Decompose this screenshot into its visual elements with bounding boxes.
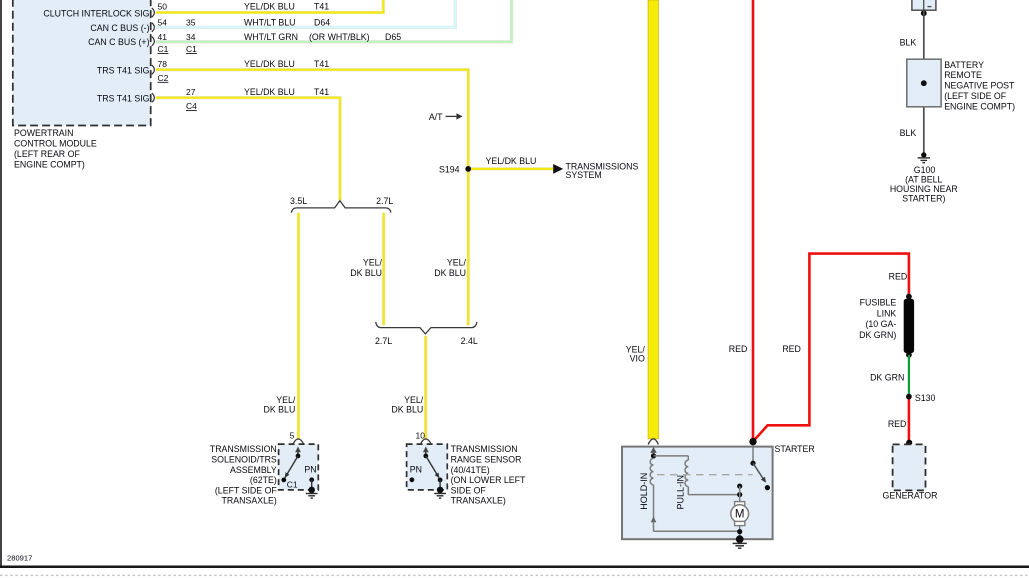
svg-text:HOUSING NEAR: HOUSING NEAR xyxy=(890,184,958,194)
svg-text:2.7L: 2.7L xyxy=(375,336,392,346)
svg-text:(OR WHT/BLK): (OR WHT/BLK) xyxy=(309,32,370,42)
svg-text:TRANSMISSION: TRANSMISSION xyxy=(451,444,518,454)
svg-text:WHT/LT BLU: WHT/LT BLU xyxy=(244,17,295,27)
svg-text:(ON LOWER LEFT: (ON LOWER LEFT xyxy=(451,475,526,485)
svg-text:DK BLU: DK BLU xyxy=(391,405,423,415)
svg-text:S130: S130 xyxy=(915,393,936,403)
svg-text:(62TE): (62TE) xyxy=(250,475,277,485)
svg-text:78: 78 xyxy=(158,59,168,69)
svg-text:A/T: A/T xyxy=(429,112,443,122)
svg-text:SYSTEM: SYSTEM xyxy=(566,170,602,180)
svg-text:M: M xyxy=(735,509,745,521)
svg-text:RED: RED xyxy=(889,271,908,281)
svg-text:VIO: VIO xyxy=(630,354,645,364)
svg-text:PN: PN xyxy=(304,464,316,474)
svg-text:CAN C BUS (-): CAN C BUS (-) xyxy=(90,23,149,33)
svg-text:DK BLU: DK BLU xyxy=(434,268,466,278)
svg-text:RANGE SENSOR: RANGE SENSOR xyxy=(451,455,522,465)
svg-text:41: 41 xyxy=(158,32,168,42)
svg-text:T41: T41 xyxy=(314,87,329,97)
svg-text:TRS T41 SIG: TRS T41 SIG xyxy=(97,94,150,104)
svg-text:(AT BELL: (AT BELL xyxy=(905,174,942,184)
svg-text:280917: 280917 xyxy=(7,554,32,563)
svg-text:S194: S194 xyxy=(439,165,460,175)
svg-text:RED: RED xyxy=(782,344,801,354)
svg-text:ENGINE COMPT): ENGINE COMPT) xyxy=(944,101,1015,111)
svg-text:ASSEMBLY: ASSEMBLY xyxy=(230,465,277,475)
svg-text:LINK: LINK xyxy=(877,308,897,318)
svg-text:2.4L: 2.4L xyxy=(461,336,478,346)
svg-text:D65: D65 xyxy=(385,32,401,42)
svg-text:(LEFT SIDE OF: (LEFT SIDE OF xyxy=(215,485,278,495)
svg-text:CAN C BUS (+): CAN C BUS (+) xyxy=(88,37,149,47)
svg-text:BLK: BLK xyxy=(900,37,917,47)
svg-text:RED: RED xyxy=(729,344,748,354)
svg-text:ENGINE COMPT): ENGINE COMPT) xyxy=(14,160,85,170)
svg-text:10: 10 xyxy=(416,430,426,440)
svg-text:TRANSMISSION: TRANSMISSION xyxy=(210,444,277,454)
svg-text:YEL/: YEL/ xyxy=(404,395,424,405)
svg-text:(LEFT REAR OF: (LEFT REAR OF xyxy=(14,149,80,159)
svg-text:T41: T41 xyxy=(314,2,329,12)
svg-text:(10 GA-: (10 GA- xyxy=(865,319,896,329)
svg-text:YEL/: YEL/ xyxy=(363,258,383,268)
svg-text:STARTER): STARTER) xyxy=(902,193,945,203)
svg-text:YEL/DK BLU: YEL/DK BLU xyxy=(486,156,537,166)
svg-text:3.5L: 3.5L xyxy=(290,196,307,206)
svg-text:27: 27 xyxy=(186,87,196,97)
svg-text:TRS T41 SIG: TRS T41 SIG xyxy=(97,66,150,76)
svg-text:54: 54 xyxy=(158,17,168,27)
svg-text:NEGATIVE POST: NEGATIVE POST xyxy=(944,81,1015,91)
svg-text:G100: G100 xyxy=(914,165,936,175)
svg-text:YEL/DK BLU: YEL/DK BLU xyxy=(244,87,295,97)
svg-text:TRANSAXLE): TRANSAXLE) xyxy=(222,496,277,506)
svg-text:(40/41TE): (40/41TE) xyxy=(451,465,490,475)
svg-text:D64: D64 xyxy=(314,17,330,27)
svg-text:SOLENOID/TRS: SOLENOID/TRS xyxy=(211,455,277,465)
svg-text:YEL/: YEL/ xyxy=(276,395,296,405)
svg-text:RED: RED xyxy=(888,419,907,429)
svg-text:DK GRN: DK GRN xyxy=(870,372,904,382)
svg-text:DK BLU: DK BLU xyxy=(264,405,296,415)
svg-text:C1: C1 xyxy=(186,44,197,54)
svg-text:C2: C2 xyxy=(158,73,169,83)
svg-text:STARTER: STARTER xyxy=(775,444,815,454)
svg-text:50: 50 xyxy=(158,2,168,12)
svg-text:YEL/: YEL/ xyxy=(447,258,467,268)
svg-text:C4: C4 xyxy=(186,101,197,111)
svg-text:C1: C1 xyxy=(158,44,169,54)
svg-text:BATTERY: BATTERY xyxy=(944,60,984,70)
svg-text:35: 35 xyxy=(186,17,196,27)
svg-text:CONTROL MODULE: CONTROL MODULE xyxy=(14,139,97,149)
svg-text:REMOTE: REMOTE xyxy=(944,70,982,80)
svg-text:DK BLU: DK BLU xyxy=(350,268,382,278)
svg-text:FUSIBLE: FUSIBLE xyxy=(860,298,897,308)
svg-text:C1: C1 xyxy=(287,479,298,489)
svg-text:5: 5 xyxy=(290,430,295,440)
svg-text:GENERATOR: GENERATOR xyxy=(883,490,938,500)
svg-text:SIDE OF: SIDE OF xyxy=(451,485,487,495)
svg-text:CLUTCH INTERLOCK SIG: CLUTCH INTERLOCK SIG xyxy=(43,9,149,19)
svg-text:T41: T41 xyxy=(314,59,329,69)
svg-text:2.7L: 2.7L xyxy=(376,196,393,206)
svg-text:HOLD-IN: HOLD-IN xyxy=(639,473,649,510)
svg-text:POWERTRAIN: POWERTRAIN xyxy=(14,128,73,138)
svg-text:PULL-IN: PULL-IN xyxy=(675,475,685,510)
svg-text:YEL/DK BLU: YEL/DK BLU xyxy=(244,2,295,12)
svg-text:34: 34 xyxy=(186,32,196,42)
svg-text:TRANSAXLE): TRANSAXLE) xyxy=(451,496,506,506)
svg-text:(LEFT SIDE OF: (LEFT SIDE OF xyxy=(944,91,1007,101)
svg-text:WHT/LT GRN: WHT/LT GRN xyxy=(244,32,298,42)
svg-text:PN: PN xyxy=(410,464,422,474)
svg-text:BLK: BLK xyxy=(900,128,917,138)
svg-text:DK GRN): DK GRN) xyxy=(859,330,896,340)
svg-text:YEL/DK BLU: YEL/DK BLU xyxy=(244,59,295,69)
